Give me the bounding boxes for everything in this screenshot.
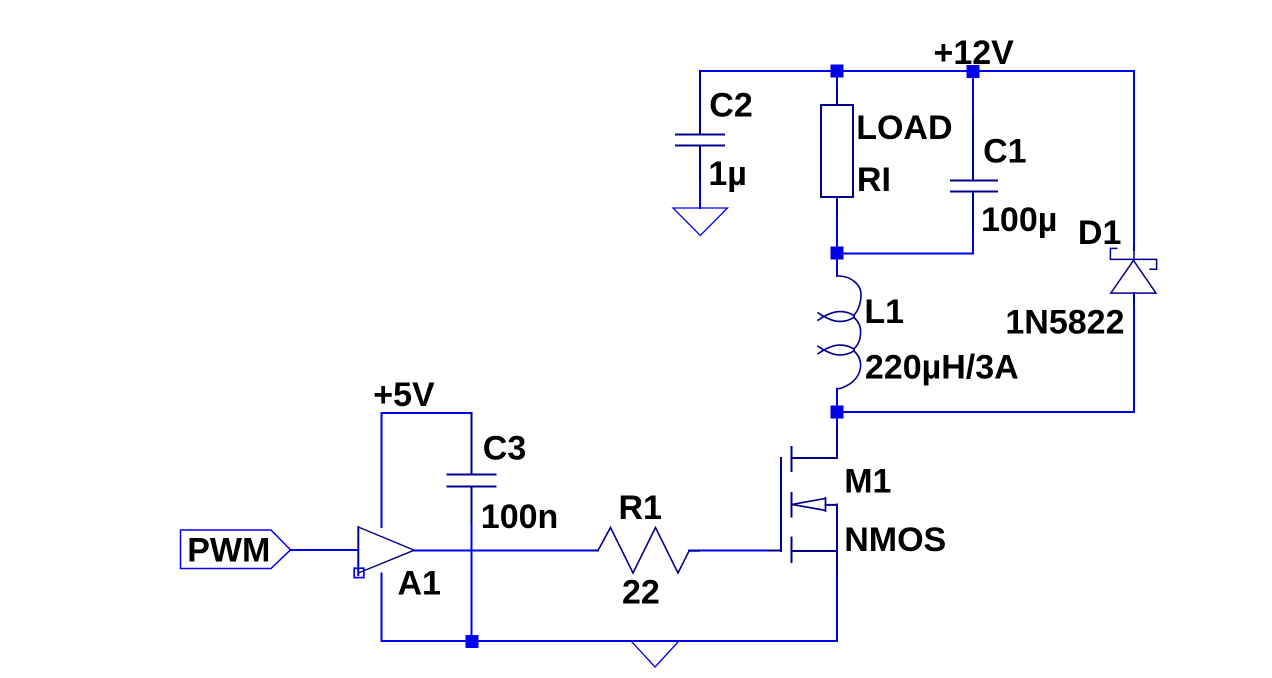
wire D1 anode down and left to node SW [837, 293, 1134, 412]
op-amp buffer A1 [358, 527, 414, 573]
inductor L1 [818, 276, 861, 389]
junction node +12V/RI [831, 65, 844, 78]
wire A1 input edge [357, 527, 359, 575]
ground (C2) [673, 208, 728, 236]
wire C1 top stub [972, 71, 974, 120]
wire L1 bottom stub [836, 389, 838, 412]
svg-text:D1: D1 [1078, 214, 1121, 252]
wire A1 output to R1 [414, 550, 598, 552]
wire RI top stub [836, 71, 838, 105]
svg-text:+12V: +12V [934, 34, 1015, 72]
wire C3 bottom down to rail [471, 521, 473, 641]
wire top rail +12V [700, 70, 1134, 72]
svg-text:M1: M1 [844, 463, 891, 501]
resistor R1 [593, 528, 699, 574]
svg-text:1µ: 1µ [708, 155, 747, 193]
capacitor C2 [676, 71, 724, 181]
wire +5V down to A1 power pin [381, 413, 383, 527]
svg-text:C3: C3 [483, 429, 526, 467]
svg-text:LOAD: LOAD [856, 109, 952, 147]
svg-text:NMOS: NMOS [844, 521, 946, 559]
wire RI bottom stub [836, 197, 838, 253]
wire R1 to M1 gate [689, 550, 769, 552]
junction node +12V/C1 [967, 65, 980, 78]
wire L1 top stub [836, 253, 838, 276]
svg-text:+5V: +5V [373, 376, 435, 414]
wire ground rail bottom [382, 640, 838, 642]
diode D1 (schottky) [1110, 245, 1156, 306]
capacitor C1 [951, 119, 997, 229]
svg-text:C1: C1 [983, 133, 1026, 171]
svg-text:100n: 100n [481, 498, 559, 536]
capacitor C3 [448, 413, 496, 522]
wire PWM to A1 input [291, 549, 359, 551]
ground (bottom rail) [631, 641, 679, 667]
svg-text:100µ: 100µ [981, 201, 1057, 239]
wire C1 bottom to node [837, 228, 973, 254]
svg-text:L1: L1 [864, 293, 904, 331]
svg-text:1N5822: 1N5822 [1005, 303, 1124, 341]
svg-text:C2: C2 [709, 87, 752, 125]
wire A1 ground pin down to rail [381, 574, 383, 642]
transistor M1 (NMOS) [769, 428, 837, 574]
resistor RI (LOAD) [821, 88, 853, 214]
wire C2 bottom to ground [699, 180, 701, 208]
wire M1 source down to ground rail [836, 572, 838, 641]
flag PWM [181, 530, 291, 569]
svg-text:R1: R1 [619, 489, 662, 527]
wire +5V rail [382, 412, 472, 414]
junction node SW L1/M1/D1 [831, 406, 844, 419]
wire right branch down to D1 [1133, 71, 1135, 250]
svg-text:PWM: PWM [187, 532, 270, 570]
svg-text:RI: RI [857, 161, 891, 199]
junction node RI/L1/C1 [831, 247, 844, 260]
junction node C3/ground rail [466, 635, 479, 648]
svg-text:A1: A1 [398, 565, 441, 603]
A1 input pin square [354, 568, 364, 577]
wire M1 drain stub [836, 412, 838, 430]
svg-text:22: 22 [622, 574, 660, 612]
svg-text:220µH/3A: 220µH/3A [865, 348, 1019, 386]
